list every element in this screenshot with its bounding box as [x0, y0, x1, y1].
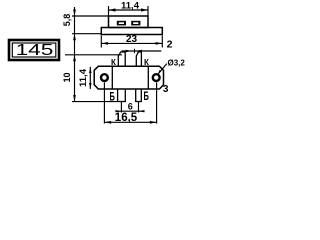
front view: package outline octagon	[94, 66, 163, 89]
top view: raised cap rectangle	[109, 16, 149, 28]
dim 23 line	[101, 42, 162, 44]
dim 16.5 arrows	[105, 121, 112, 124]
svg-text:11,4: 11,4	[78, 68, 89, 87]
dim 10 top extension line	[65, 54, 122, 56]
svg-text:Б: Б	[144, 91, 149, 104]
svg-text:145: 145	[16, 41, 54, 59]
front view: center block left edge	[111, 66, 113, 89]
top view: slot 1	[117, 21, 126, 26]
svg-text:5,8: 5,8	[62, 14, 72, 27]
svg-text:2: 2	[167, 39, 173, 51]
dim 5.8 arrows	[73, 10, 76, 16]
dim 2 line	[122, 50, 162, 52]
mounting hole right	[153, 74, 160, 81]
hole centerline right	[156, 83, 158, 124]
top view: base body rectangle	[101, 28, 162, 35]
dim 11.4 (ear) arrows	[89, 68, 92, 74]
dim 11.4 (ear) vertical line	[89, 67, 91, 89]
dim 5.8 top extension line	[72, 15, 109, 17]
dim 10 bottom extension line	[72, 101, 117, 103]
bottom lead 4	[136, 89, 142, 102]
dim 2 arrows	[126, 50, 131, 53]
dim 23 extension lines	[100, 36, 102, 48]
dim 16.5 line	[104, 121, 156, 123]
dim 6 arrows	[116, 110, 122, 112]
hole centerline left	[103, 83, 105, 124]
front view: top lead 2	[136, 52, 141, 66]
dim 11.4 arrows	[109, 8, 116, 11]
bottom lead 3	[118, 89, 126, 102]
svg-text:Б: Б	[110, 91, 115, 104]
stamp box 145 outer	[9, 40, 59, 60]
dim 10 arrows	[73, 55, 76, 61]
dim 5.8 vertical line (shared with dim 10)	[74, 7, 76, 102]
front view: top lead 1	[118, 52, 125, 66]
leader to right hole	[158, 64, 167, 74]
svg-text:6: 6	[128, 101, 133, 111]
svg-text:Ø3,2: Ø3,2	[168, 58, 186, 67]
dim 11.4 extension lines	[108, 6, 110, 16]
svg-text:10: 10	[62, 72, 72, 82]
lead centerline extensions	[120, 102, 122, 113]
stamp box 145 inner	[12, 43, 56, 57]
svg-text:23: 23	[126, 34, 138, 45]
svg-text:11,4: 11,4	[121, 0, 140, 11]
svg-text:К: К	[111, 58, 116, 67]
dim 11.4 line	[109, 9, 149, 11]
top view: slot 2	[131, 21, 140, 26]
dim 5.8 bottom extension line	[72, 33, 101, 35]
svg-text:3: 3	[163, 84, 169, 95]
svg-text:К: К	[144, 58, 149, 67]
dim 23 arrows	[102, 42, 109, 45]
dim 6 line	[115, 110, 144, 112]
front view: center block right edge	[147, 66, 149, 89]
mounting hole left	[101, 74, 108, 81]
